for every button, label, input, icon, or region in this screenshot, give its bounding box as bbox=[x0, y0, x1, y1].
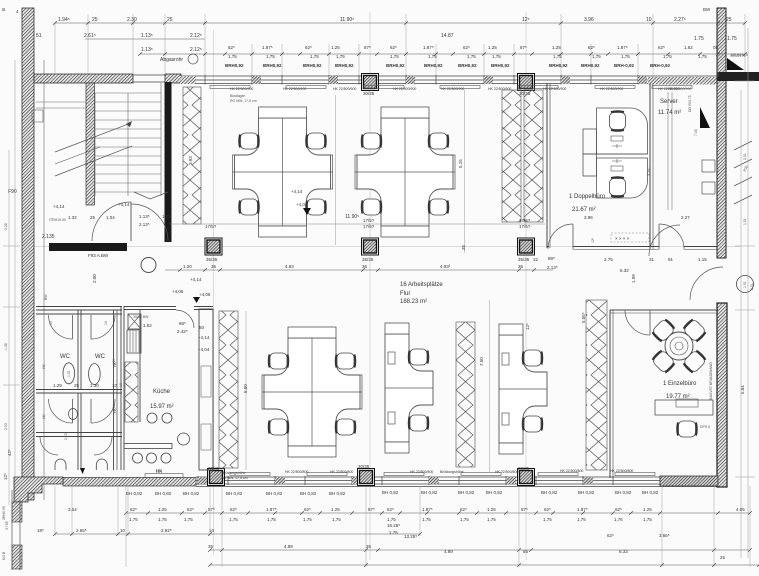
top window band bbox=[180, 75, 718, 85]
svg-text:HK: HK bbox=[42, 363, 46, 369]
svg-text:13.25⁵: 13.25⁵ bbox=[404, 534, 417, 539]
svg-text:1.25: 1.25 bbox=[331, 45, 340, 50]
svg-text:+4,04: +4,04 bbox=[198, 347, 210, 352]
extension lines bottom bbox=[55, 486, 750, 567]
svg-text:3RH0,95: 3RH0,95 bbox=[2, 506, 6, 520]
kitchen sink unit bbox=[127, 330, 141, 353]
column 35/35 mid A bbox=[205, 238, 222, 255]
svg-text:KO.B: KO.B bbox=[2, 551, 6, 560]
svg-text:HK: HK bbox=[42, 413, 46, 419]
right side door arcs bottom bbox=[649, 225, 680, 256]
dim ticks bottom rows bbox=[53, 511, 759, 567]
svg-text:2.00: 2.00 bbox=[92, 274, 97, 283]
svg-text:30/35: 30/35 bbox=[358, 464, 370, 469]
radiators above bottom windows bbox=[145, 473, 655, 478]
svg-text:DPS 6: DPS 6 bbox=[700, 425, 710, 429]
svg-text:87⁵: 87⁵ bbox=[368, 507, 375, 512]
svg-text:16.25⁵: 16.25⁵ bbox=[387, 523, 400, 528]
server rack lines bbox=[667, 92, 669, 210]
svg-text:BRH0,92: BRH0,92 bbox=[458, 63, 477, 68]
desk cluster 3 bottom bbox=[262, 327, 362, 457]
stair mid wall hatched bbox=[86, 83, 95, 205]
column 30/35 top C bbox=[518, 74, 535, 91]
svg-text:35: 35 bbox=[366, 544, 372, 549]
window dims row bbox=[228, 45, 719, 50]
svg-text:HK 22/500/800: HK 22/500/800 bbox=[410, 470, 433, 474]
svg-text:1.87⁵: 1.87⁵ bbox=[577, 507, 588, 512]
kitchen door top right arc bbox=[176, 310, 194, 328]
svg-text:HK 22/500/900: HK 22/500/900 bbox=[393, 87, 416, 91]
left lower hatched patches bbox=[12, 502, 22, 522]
svg-text:BH 0,82: BH 0,82 bbox=[126, 491, 143, 496]
svg-text:HK 22/500/900: HK 22/500/900 bbox=[283, 87, 306, 91]
svg-text:1.87⁵: 1.87⁵ bbox=[422, 507, 433, 512]
right outside diagonals bbox=[734, 141, 752, 204]
svg-text:1,75: 1,75 bbox=[184, 517, 193, 522]
svg-text:10: 10 bbox=[104, 321, 108, 325]
svg-text:BH 0,82: BH 0,82 bbox=[382, 490, 399, 495]
svg-text:3.28: 3.28 bbox=[4, 223, 8, 230]
svg-text:RG MW, 17,5 cm: RG MW, 17,5 cm bbox=[230, 99, 257, 103]
svg-text:17/5?: 17/5? bbox=[519, 218, 531, 223]
svg-text:Bkstlagen: Bkstlagen bbox=[230, 94, 245, 98]
svg-text:ITRH19.90: ITRH19.90 bbox=[49, 218, 66, 222]
svg-text:+4,06: +4,06 bbox=[199, 292, 211, 297]
wc-kitchen shaft wall bbox=[113, 310, 115, 470]
svg-text:+4,14: +4,14 bbox=[291, 189, 303, 194]
svg-text:1,75: 1,75 bbox=[553, 54, 562, 59]
stair right wall dark bbox=[165, 82, 172, 242]
kitchen left wall bbox=[120, 306, 122, 470]
svg-text:1.94⁵: 1.94⁵ bbox=[58, 17, 70, 23]
svg-text:HK 22/500/900: HK 22/500/900 bbox=[543, 87, 566, 91]
svg-text:1.13⁵: 1.13⁵ bbox=[141, 47, 153, 53]
svg-text:12⁵: 12⁵ bbox=[3, 473, 8, 480]
svg-text:35: 35 bbox=[461, 244, 466, 250]
svg-text:1,75: 1,75 bbox=[158, 517, 167, 522]
svg-text:62⁵: 62⁵ bbox=[130, 507, 137, 512]
svg-text:14.87: 14.87 bbox=[441, 33, 454, 39]
svg-text:35/05 BW: 35/05 BW bbox=[133, 315, 149, 319]
svg-text:11.90⁵: 11.90⁵ bbox=[340, 17, 354, 23]
circle column near WC bbox=[141, 258, 156, 273]
svg-text:BW: BW bbox=[44, 294, 48, 300]
zigzag band bottom-left bbox=[219, 311, 238, 468]
Abgasrohr pipe circle bbox=[188, 54, 198, 64]
svg-text:Server: Server bbox=[660, 99, 678, 105]
svg-text:1,75: 1,75 bbox=[698, 54, 707, 59]
svg-text:1,75: 1,75 bbox=[492, 54, 501, 59]
dim line row bbox=[126, 512, 750, 514]
svg-text:1.15: 1.15 bbox=[698, 257, 707, 262]
svg-text:DD 90/175: DD 90/175 bbox=[688, 95, 692, 112]
svg-text:2.30: 2.30 bbox=[127, 17, 137, 23]
svg-text:4.85: 4.85 bbox=[736, 507, 745, 512]
svg-text:62⁵: 62⁵ bbox=[607, 533, 614, 538]
svg-text:BRH0,92: BRH0,92 bbox=[549, 63, 568, 68]
stair flight diagonals bbox=[55, 123, 131, 152]
bottom wall left hatched part bbox=[63, 478, 196, 487]
svg-text:1,75: 1,75 bbox=[487, 517, 496, 522]
svg-text:HK 22/33/900: HK 22/33/900 bbox=[658, 87, 679, 91]
svg-text:17/5?: 17/5? bbox=[363, 224, 375, 229]
top exterior wall left hatched part 2 bbox=[165, 74, 181, 83]
interior vertical dim lines bbox=[246, 90, 490, 472]
svg-text:21.67 m²: 21.67 m² bbox=[572, 207, 596, 213]
17/57 labels above mid columns bbox=[170, 223, 545, 225]
svg-text:2.53: 2.53 bbox=[64, 433, 68, 440]
svg-text:62⁵: 62⁵ bbox=[390, 45, 397, 50]
svg-text:2.27: 2.27 bbox=[681, 215, 690, 220]
doppelbuero left wall bbox=[546, 83, 548, 248]
svg-text:31: 31 bbox=[649, 257, 655, 262]
door server bbox=[659, 224, 684, 249]
svg-text:5.05⁵: 5.05⁵ bbox=[581, 312, 586, 323]
svg-text:Abgasrohr: Abgasrohr bbox=[160, 57, 183, 63]
svg-text:62⁵: 62⁵ bbox=[187, 507, 194, 512]
svg-text:91: 91 bbox=[668, 257, 674, 262]
svg-text:2.51: 2.51 bbox=[750, 283, 754, 290]
extension lines top bbox=[55, 14, 745, 77]
svg-text:1,75: 1,75 bbox=[267, 517, 276, 522]
column 30/35 bottom B bbox=[358, 469, 375, 486]
svg-text:05: 05 bbox=[713, 45, 719, 50]
svg-text:87⁵: 87⁵ bbox=[364, 45, 371, 50]
svg-text:17/5?: 17/5? bbox=[363, 218, 375, 223]
svg-text:BRH0,92: BRH0,92 bbox=[263, 63, 282, 68]
svg-text:1,75: 1,75 bbox=[228, 54, 237, 59]
svg-text:25: 25 bbox=[90, 215, 96, 220]
svg-text:2.92⁵: 2.92⁵ bbox=[161, 528, 172, 533]
column 30/35 bottom C bbox=[518, 469, 535, 486]
svg-text:F93 A.BW: F93 A.BW bbox=[88, 253, 109, 258]
svg-text:1.25: 1.25 bbox=[643, 507, 652, 512]
svg-text:62⁵: 62⁵ bbox=[304, 507, 311, 512]
svg-text:25: 25 bbox=[726, 17, 732, 23]
svg-text:2.12⁵: 2.12⁵ bbox=[190, 33, 202, 39]
svg-text:+4,14: +4,14 bbox=[190, 277, 202, 282]
svg-text:BH 0,82: BH 0,82 bbox=[578, 490, 595, 495]
zigzag band top-left bbox=[183, 87, 201, 224]
svg-text:BRH0,92: BRH0,92 bbox=[424, 63, 443, 68]
svg-text:2.75: 2.75 bbox=[604, 257, 613, 262]
stair treads bbox=[95, 83, 161, 196]
svg-text:1.04: 1.04 bbox=[106, 215, 115, 220]
svg-text:HK 22/500/900: HK 22/500/900 bbox=[488, 87, 511, 91]
svg-text:2.12⁵: 2.12⁵ bbox=[190, 47, 202, 53]
zigzag band einzelbuero bbox=[586, 300, 607, 470]
svg-text:62⁵: 62⁵ bbox=[588, 45, 595, 50]
svg-text:3.96: 3.96 bbox=[584, 215, 593, 220]
left exterior wall hatched bbox=[22, 8, 34, 500]
corridor dim line bbox=[165, 269, 553, 271]
wc lower wall bbox=[36, 432, 122, 434]
svg-text:17/5?: 17/5? bbox=[519, 224, 531, 229]
grid axis horizontal mid bbox=[30, 246, 740, 248]
bottom-left wall corner steps bbox=[14, 477, 63, 502]
svg-text:11.74 m²: 11.74 m² bbox=[658, 110, 681, 116]
svg-text:10: 10 bbox=[49, 321, 53, 325]
svg-text:50: 50 bbox=[199, 325, 205, 330]
svg-text:BAUVST BRANDWAND: BAUVST BRANDWAND bbox=[709, 362, 713, 400]
svg-text:BRH0,92: BRH0,92 bbox=[225, 63, 244, 68]
svg-text:1,75: 1,75 bbox=[460, 517, 469, 522]
svg-text:17/5?: 17/5? bbox=[205, 224, 217, 229]
svg-text:4.93²: 4.93² bbox=[440, 264, 451, 269]
svg-text:HK 22/500/800: HK 22/500/800 bbox=[495, 470, 518, 474]
svg-text:10: 10 bbox=[646, 17, 652, 23]
svg-text:62⁵: 62⁵ bbox=[228, 45, 235, 50]
top wall window segment left bbox=[133, 75, 165, 82]
round table with chairs bbox=[665, 332, 693, 360]
svg-text:1.25: 1.25 bbox=[552, 45, 561, 50]
wc partition vertical bbox=[77, 310, 79, 389]
svg-text:12⁵: 12⁵ bbox=[591, 237, 595, 243]
rooms bottom wall bbox=[547, 246, 718, 248]
svg-text:36: 36 bbox=[362, 264, 368, 269]
svg-text:3.96: 3.96 bbox=[584, 17, 594, 23]
svg-text:86⁵: 86⁵ bbox=[179, 321, 186, 326]
svg-text:Flur: Flur bbox=[400, 291, 410, 297]
svg-text:12⁵: 12⁵ bbox=[525, 323, 530, 330]
svg-text:62⁵: 62⁵ bbox=[615, 507, 622, 512]
desk cluster 1 top bbox=[233, 107, 333, 237]
svg-text:35: 35 bbox=[208, 544, 214, 549]
svg-text:35/35: 35/35 bbox=[362, 257, 374, 262]
svg-text:BRH0,92: BRH0,92 bbox=[581, 63, 600, 68]
svg-text:1,75: 1,75 bbox=[621, 54, 630, 59]
svg-text:1.51: 1.51 bbox=[743, 218, 747, 225]
svg-text:BH 0,82: BH 0,82 bbox=[642, 490, 659, 495]
svg-text:F90: F90 bbox=[8, 189, 17, 195]
left lower edge lines bbox=[11, 490, 13, 570]
server left wall bbox=[649, 83, 651, 249]
svg-text:25: 25 bbox=[92, 17, 98, 23]
svg-text:36: 36 bbox=[518, 264, 524, 269]
svg-text:BH 0,82: BH 0,82 bbox=[458, 490, 475, 495]
radiators under top windows bbox=[210, 86, 692, 89]
einzelbuero desk bbox=[655, 400, 713, 415]
svg-text:87⁵: 87⁵ bbox=[520, 45, 527, 50]
svg-text:+4,14: +4,14 bbox=[53, 204, 65, 209]
top right corner thick wall bbox=[717, 72, 759, 81]
toilets upper bbox=[63, 363, 75, 384]
svg-text:30/35: 30/35 bbox=[518, 466, 530, 471]
svg-text:1,75: 1,75 bbox=[303, 517, 312, 522]
svg-text:HK: HK bbox=[112, 358, 116, 364]
door einzelbuero bbox=[625, 310, 650, 335]
svg-text:HK: HK bbox=[112, 404, 116, 410]
desk half cluster 5 bottom bbox=[499, 324, 547, 454]
svg-text:1,75: 1,75 bbox=[543, 517, 552, 522]
svg-text:HK 22/500/900: HK 22/500/900 bbox=[441, 87, 464, 91]
svg-text:1.99: 1.99 bbox=[631, 274, 636, 283]
svg-text:6.32: 6.32 bbox=[620, 268, 629, 273]
desk cluster 2 top bbox=[355, 107, 455, 237]
svg-text:1.13⁵: 1.13⁵ bbox=[139, 214, 150, 219]
stair bottom cut mark bbox=[134, 192, 168, 199]
column 35/35 mid C bbox=[518, 238, 535, 255]
svg-text:7.00: 7.00 bbox=[694, 129, 698, 136]
kitchen top wall bbox=[124, 306, 176, 308]
svg-text:1.87⁵: 1.87⁵ bbox=[266, 507, 277, 512]
svg-text:4.89: 4.89 bbox=[284, 544, 293, 549]
svg-text:5.15: 5.15 bbox=[458, 159, 463, 168]
svg-text:+4,06: +4,06 bbox=[172, 289, 184, 294]
svg-text:4.89: 4.89 bbox=[444, 549, 453, 554]
svg-text:15.97 m²: 15.97 m² bbox=[150, 404, 174, 410]
svg-text:55: 55 bbox=[523, 549, 529, 554]
svg-text:1,75: 1,75 bbox=[229, 517, 238, 522]
kitchen zigzag column bbox=[125, 362, 138, 422]
svg-text:1.62: 1.62 bbox=[684, 45, 693, 50]
svg-text:BH 0,82: BH 0,82 bbox=[266, 491, 283, 496]
svg-text:3.55⁵: 3.55⁵ bbox=[659, 533, 670, 538]
svg-text:36: 36 bbox=[211, 264, 217, 269]
wc top wall bbox=[36, 306, 122, 308]
svg-text:BH 0,82: BH 0,82 bbox=[421, 490, 438, 495]
svg-text:1 Einzelbüro: 1 Einzelbüro bbox=[663, 381, 697, 387]
svg-text:1,75: 1,75 bbox=[310, 54, 319, 59]
kitchen counter edge bbox=[139, 310, 141, 422]
svg-text:HK 22/500/800: HK 22/500/800 bbox=[330, 470, 353, 474]
svg-text:1.87⁵: 1.87⁵ bbox=[423, 45, 434, 50]
svg-text:2.27⁵: 2.27⁵ bbox=[674, 17, 686, 23]
svg-text:BH 0,82: BH 0,82 bbox=[226, 491, 243, 496]
toilets bottom bbox=[55, 459, 66, 470]
svg-text:35/35: 35/35 bbox=[518, 257, 530, 262]
column 30/35 bottom A bbox=[208, 469, 225, 486]
svg-text:BRH0,92: BRH0,92 bbox=[386, 63, 405, 68]
svg-text:+4,14: +4,14 bbox=[118, 202, 130, 207]
svg-text:BH 0,82: BH 0,82 bbox=[615, 490, 632, 495]
svg-text:1,75: 1,75 bbox=[129, 517, 138, 522]
bottom wall right hatched dense part bbox=[660, 476, 718, 486]
wc doors bottom row bbox=[40, 437, 58, 455]
room walls bbox=[609, 310, 611, 478]
svg-text:62⁵: 62⁵ bbox=[544, 507, 551, 512]
svg-text:87⁵: 87⁵ bbox=[208, 507, 215, 512]
svg-text:62⁵: 62⁵ bbox=[460, 507, 467, 512]
svg-text:1.75: 1.75 bbox=[727, 36, 737, 42]
grid axis vertical A bbox=[213, 30, 215, 555]
svg-text:87⁵: 87⁵ bbox=[521, 507, 528, 512]
door doppelbuero bbox=[548, 224, 573, 249]
svg-text:HK 22/500/900: HK 22/500/900 bbox=[600, 87, 623, 91]
svg-text:25: 25 bbox=[720, 555, 726, 560]
svg-text:32: 32 bbox=[533, 257, 539, 262]
left closet lines bbox=[36, 101, 86, 103]
svg-text:B: B bbox=[1, 8, 6, 11]
svg-text:BH 0,82: BH 0,82 bbox=[183, 491, 200, 496]
svg-text:62⁵: 62⁵ bbox=[230, 507, 237, 512]
grid axis vertical B bbox=[369, 12, 371, 560]
desk half cluster 4 bottom bbox=[385, 323, 433, 453]
bottom exterior window wall bbox=[196, 476, 718, 487]
svg-text:16 Arbeitsplätze: 16 Arbeitsplätze bbox=[400, 282, 443, 288]
svg-text:2.42⁵: 2.42⁵ bbox=[177, 329, 188, 334]
right margin dim lines bbox=[735, 28, 755, 558]
svg-text:Brüstungshöhe: Brüstungshöhe bbox=[222, 471, 246, 475]
svg-text:WC: WC bbox=[95, 354, 106, 360]
svg-text:BH 0,82: BH 0,82 bbox=[541, 490, 558, 495]
svg-text:51: 51 bbox=[36, 33, 42, 39]
kitchen tall cabinet right bbox=[199, 309, 213, 470]
svg-text:BH 0,82: BH 0,82 bbox=[300, 491, 317, 496]
svg-text:1.30: 1.30 bbox=[90, 383, 99, 388]
svg-text:+4,04: +4,04 bbox=[296, 202, 308, 207]
svg-text:30/35: 30/35 bbox=[363, 91, 375, 96]
svg-text:4.93: 4.93 bbox=[285, 264, 294, 269]
svg-text:1,75: 1,75 bbox=[387, 517, 396, 522]
right brandwand top segment bbox=[717, 8, 726, 258]
svg-text:HK 22/500/800: HK 22/500/800 bbox=[285, 470, 308, 474]
svg-text:1,75: 1,75 bbox=[428, 54, 437, 59]
bottom wall piers bbox=[198, 477, 208, 484]
wc doors lower bbox=[72, 399, 74, 423]
svg-text:BH 0,82: BH 0,82 bbox=[155, 491, 172, 496]
left wall inner line bbox=[43, 60, 45, 500]
svg-text:11.90⁵: 11.90⁵ bbox=[345, 214, 359, 220]
svg-text:1,75: 1,75 bbox=[577, 517, 586, 522]
svg-text:HK: HK bbox=[156, 468, 162, 473]
zigzag band center double bbox=[502, 90, 521, 222]
black triangles wall marks bbox=[727, 58, 744, 70]
left margin dim lines bbox=[3, 60, 20, 505]
stair bottom doors bbox=[130, 202, 132, 241]
svg-text:1,75: 1,75 bbox=[663, 54, 672, 59]
svg-text:alt. BW, 17,5 cm: alt. BW, 17,5 cm bbox=[222, 476, 248, 480]
svg-text:1,75: 1,75 bbox=[390, 54, 399, 59]
wc mid wall bbox=[36, 389, 122, 391]
svg-text:1.51: 1.51 bbox=[67, 370, 71, 377]
svg-text:10: 10 bbox=[120, 528, 126, 533]
svg-text:62⁵: 62⁵ bbox=[305, 45, 312, 50]
svg-text:× × × ×: × × × × bbox=[615, 236, 630, 241]
svg-text:62⁵: 62⁵ bbox=[387, 507, 394, 512]
svg-text:5.50: 5.50 bbox=[243, 384, 248, 393]
svg-text:1.87⁵: 1.87⁵ bbox=[262, 45, 273, 50]
dim ticks row C bbox=[138, 52, 747, 56]
top wall piers hatched bbox=[180, 76, 196, 84]
svg-text:3.93: 3.93 bbox=[188, 156, 193, 165]
radiator labels under top windows bbox=[230, 87, 679, 91]
svg-text:188.23 m²: 188.23 m² bbox=[400, 299, 427, 305]
stair foot wall dark F93 bbox=[49, 243, 127, 251]
svg-text:1.52: 1.52 bbox=[143, 323, 152, 328]
svg-text:1,75: 1,75 bbox=[592, 54, 601, 59]
svg-text:3.54: 3.54 bbox=[68, 507, 77, 512]
svg-text:1 Doppelbüro: 1 Doppelbüro bbox=[569, 194, 606, 200]
svg-text:1,75: 1,75 bbox=[422, 517, 431, 522]
column 35/35 mid B bbox=[362, 238, 379, 255]
right brandwand lower segment bbox=[717, 303, 727, 487]
column labels bbox=[206, 91, 531, 471]
svg-text:62⁵: 62⁵ bbox=[658, 45, 665, 50]
kitchen shaft box bbox=[128, 314, 141, 329]
svg-text:BRH0,92: BRH0,92 bbox=[303, 63, 322, 68]
svg-text:7.50: 7.50 bbox=[479, 357, 484, 366]
svg-text:25: 25 bbox=[167, 17, 173, 23]
svg-text:1,75: 1,75 bbox=[332, 517, 341, 522]
column 30/35 top B bbox=[362, 74, 379, 91]
svg-text:35/35: 35/35 bbox=[206, 257, 218, 262]
svg-text:42⁵: 42⁵ bbox=[7, 449, 12, 456]
svg-text:88⁵: 88⁵ bbox=[548, 256, 555, 261]
svg-text:HK 22/500/900: HK 22/500/900 bbox=[333, 87, 356, 91]
top exterior wall left hatched part bbox=[34, 74, 133, 83]
BH row bbox=[126, 490, 659, 496]
